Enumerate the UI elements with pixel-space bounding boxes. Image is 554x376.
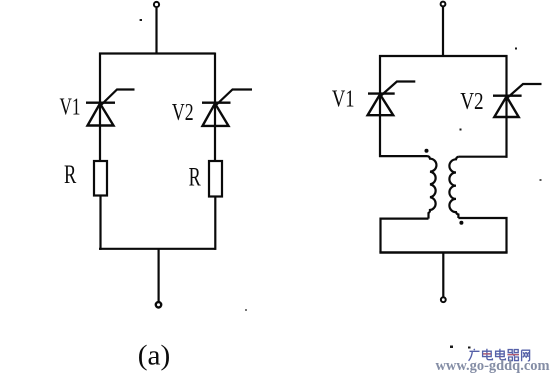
- svg-text:(a): (a): [138, 340, 171, 372]
- wire bottom lead left circuit: [158, 249, 160, 302]
- thyristor V2 (right circuit): [493, 84, 542, 117]
- svg-text:V2: V2: [172, 100, 194, 126]
- label V1 (left circuit): [60, 95, 81, 121]
- wire upper-left to reactor: [379, 155, 428, 157]
- label V2 (left circuit): [172, 100, 194, 126]
- terminal top left circuit: [154, 2, 159, 7]
- wire top rail left circuit: [99, 52, 215, 54]
- resistor R1: [94, 161, 107, 196]
- wire right branch right circuit (anode V2): [505, 55, 507, 158]
- label V2 (right circuit): [460, 89, 483, 115]
- wire top lead left circuit: [155, 8, 157, 54]
- wire lower-right from reactor: [458, 218, 506, 253]
- label (a): [138, 340, 171, 372]
- thyristor V1: [86, 90, 135, 126]
- wire upper-right to reactor: [458, 156, 507, 158]
- watermark site name (CJK glyph approximation): [469, 349, 530, 361]
- wire right branch upper (anode V2): [214, 53, 216, 163]
- wire below R2: [214, 197, 216, 250]
- wire lower-left from reactor: [381, 219, 429, 253]
- label V1 (right circuit): [332, 87, 355, 113]
- wire top lead right circuit: [442, 7, 444, 56]
- watermark url: [436, 358, 550, 374]
- wire left branch right circuit (anode V1): [379, 55, 381, 157]
- svg-text:V2: V2: [460, 89, 483, 115]
- terminal bottom left circuit: [156, 302, 161, 307]
- polarity dot right winding: [459, 221, 463, 225]
- svg-text:V1: V1: [332, 87, 355, 113]
- terminal top right circuit: [441, 2, 446, 7]
- svg-text:R: R: [189, 163, 202, 192]
- terminal bottom right circuit: [441, 297, 446, 302]
- wire top rail right circuit: [379, 55, 508, 57]
- inductor L2 (right winding of balance reactor): [449, 157, 458, 218]
- wire below R1: [99, 196, 101, 250]
- thyristor V1 (right circuit): [368, 82, 416, 116]
- label R (left): [64, 160, 77, 189]
- svg-text:R: R: [64, 160, 77, 189]
- svg-text:V1: V1: [60, 95, 81, 121]
- wire bottom rail right circuit: [379, 251, 507, 253]
- wire bottom rail left circuit: [99, 248, 216, 250]
- svg-text:www.go-gddq.com: www.go-gddq.com: [436, 358, 550, 374]
- thyristor V2: [202, 90, 252, 126]
- wire left branch upper (anode V1): [99, 53, 101, 163]
- inductor L1 (left winding of balance reactor): [428, 156, 437, 219]
- wire bottom lead right circuit: [442, 253, 444, 297]
- resistor R2: [209, 161, 222, 197]
- label R (right): [189, 163, 202, 192]
- polarity dot left winding: [425, 149, 429, 153]
